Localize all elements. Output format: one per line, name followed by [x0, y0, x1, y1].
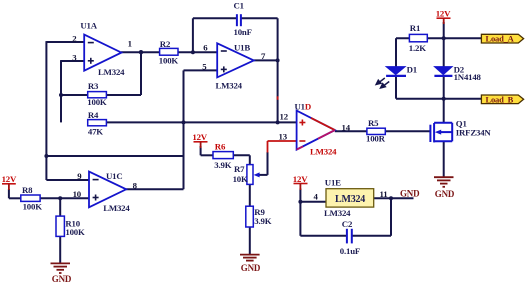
svg-text:R3: R3 — [88, 81, 99, 91]
wire node row y156 — [46, 155, 183, 157]
wire Q1 drain — [443, 99, 445, 123]
svg-text:13: 13 — [279, 132, 288, 142]
svg-text:Load_A: Load_A — [486, 34, 515, 44]
wire R10 to ground — [59, 236, 61, 263]
wire pin9 U1C — [46, 179, 89, 181]
svg-text:12V: 12V — [293, 174, 308, 184]
svg-text:R1: R1 — [410, 23, 420, 33]
svg-text:LM324: LM324 — [335, 194, 365, 205]
wire Q1 source to ground — [443, 141, 445, 177]
ground under R10 — [51, 263, 71, 273]
wire 12V stub to R6 — [200, 146, 202, 155]
wire left vertical column — [45, 41, 47, 180]
diode D1 LED — [376, 64, 417, 88]
op-amp U1A — [72, 21, 132, 77]
svg-text:R6: R6 — [215, 141, 226, 151]
svg-text:R4: R4 — [88, 110, 99, 120]
svg-text:R2: R2 — [160, 39, 171, 49]
wire pin4 U1E — [300, 201, 326, 203]
svg-text:14: 14 — [342, 123, 351, 133]
svg-text:U1E: U1E — [325, 178, 341, 188]
svg-text:R7: R7 — [234, 164, 245, 174]
wire 12V stub U1E — [299, 189, 301, 202]
wire U1C output — [126, 188, 184, 190]
wire pin3 U1A — [61, 60, 84, 62]
svg-text:12V: 12V — [192, 132, 207, 142]
op-amp U1D — [279, 102, 351, 157]
resistor R6 — [213, 141, 233, 170]
transistor Q1 — [430, 123, 452, 143]
wire feedback vertical x141 — [140, 52, 142, 95]
wire 12V vertical top right — [443, 22, 445, 38]
svg-text:U1A: U1A — [80, 21, 97, 31]
wire red mark on vertical — [277, 96, 279, 100]
svg-text:100K: 100K — [65, 227, 85, 237]
svg-text:IRFZ34N: IRFZ34N — [456, 127, 492, 137]
svg-text:1N4148: 1N4148 — [454, 72, 482, 82]
wire R3 right — [106, 94, 141, 96]
op-amp U1E power part — [314, 178, 388, 218]
svg-text:10K: 10K — [233, 174, 248, 184]
ground under Q1 — [434, 177, 454, 187]
svg-text:100K: 100K — [87, 97, 107, 107]
resistor R3 — [87, 81, 107, 107]
svg-text:LM324: LM324 — [310, 147, 337, 157]
ground under R9 — [240, 255, 260, 261]
svg-text:3.9K: 3.9K — [214, 160, 231, 170]
node junction dots — [44, 36, 445, 204]
resistor R2 — [159, 39, 179, 65]
wire R8 to pin10 U1C — [40, 197, 89, 199]
wire R3 left — [61, 94, 88, 96]
wire pin11 to GND port — [374, 197, 414, 199]
wire C1 right vertical — [277, 18, 279, 122]
svg-text:Load_B: Load_B — [486, 94, 514, 104]
svg-text:LM324: LM324 — [324, 208, 351, 218]
svg-text:LM324: LM324 — [216, 81, 243, 91]
svg-text:12V: 12V — [436, 9, 451, 19]
resistor R1 — [409, 23, 428, 53]
svg-text:10: 10 — [73, 189, 82, 199]
svg-text:12V: 12V — [2, 174, 17, 184]
wire 12V stub to R8 — [8, 189, 10, 198]
svg-text:100K: 100K — [23, 201, 43, 211]
wire R9 to ground — [249, 227, 251, 254]
svg-text:C1: C1 — [234, 1, 244, 11]
wire R4 row to pin12 U1D — [106, 121, 296, 123]
svg-text:47K: 47K — [88, 126, 103, 136]
svg-text:12: 12 — [280, 112, 289, 122]
wire into R7 top — [249, 155, 251, 164]
diode D2 — [434, 64, 481, 82]
capacitor C1 — [234, 1, 252, 38]
wire 12V to R6 — [201, 154, 213, 156]
svg-text:R8: R8 — [22, 185, 33, 195]
wire bottom row to Load_B — [396, 98, 481, 100]
wire pin3 vertical — [60, 60, 62, 122]
svg-text:D1: D1 — [407, 64, 417, 74]
svg-text:LM324: LM324 — [103, 203, 130, 213]
wire C2 left vertical — [299, 202, 301, 236]
wire C2 right vertical — [390, 198, 392, 236]
power 12V top right — [436, 9, 451, 25]
wire D2 anode — [443, 38, 445, 67]
power 12V at U1E — [293, 174, 308, 190]
wire C2 left lead — [300, 235, 346, 237]
svg-text:U1C: U1C — [106, 171, 123, 181]
resistor R9 — [246, 206, 272, 227]
wire R2 to pin6 U1B — [178, 51, 217, 53]
svg-text:1.2K: 1.2K — [409, 43, 426, 53]
wire R6 to R7 corner — [233, 154, 250, 156]
wire C1 left vertical — [192, 18, 194, 52]
svg-text:1: 1 — [128, 38, 132, 48]
connector Load_A — [481, 34, 523, 44]
capacitor C2 — [340, 219, 360, 256]
wire D1 cathode — [395, 76, 397, 99]
wire D1 anode — [395, 38, 397, 67]
wire wiper vertical lower — [267, 152, 269, 175]
resistor R5 — [366, 118, 386, 143]
connector Load_B — [481, 94, 523, 104]
wire C1 right lead — [241, 17, 278, 19]
svg-text:100K: 100K — [159, 55, 179, 65]
power 12V at R6 — [192, 132, 207, 148]
wire U1D output to R5 — [335, 130, 367, 132]
svg-text:GND: GND — [52, 274, 72, 284]
svg-text:C2: C2 — [342, 219, 353, 229]
wire U1C out vertical — [183, 70, 185, 189]
wire R5 to Q1 gate — [385, 130, 430, 132]
svg-text:R5: R5 — [368, 118, 379, 128]
svg-text:U1D: U1D — [295, 102, 312, 112]
svg-text:LM324: LM324 — [98, 67, 125, 77]
svg-text:GND: GND — [241, 263, 261, 273]
wire U1B output — [254, 59, 278, 61]
resistor R10 — [56, 216, 85, 237]
wire pin2 U1A — [46, 41, 84, 43]
resistor R8 — [21, 185, 42, 211]
power 12V left — [2, 174, 17, 190]
svg-text:GND: GND — [400, 188, 420, 198]
svg-text:GND: GND — [435, 189, 455, 199]
wire U1A output — [121, 51, 160, 53]
wire D2 cathode — [443, 76, 445, 99]
svg-text:0.1uF: 0.1uF — [340, 246, 360, 256]
wire R7 to R9 — [249, 184, 251, 206]
potentiometer R7 — [233, 164, 260, 185]
wire 12V to R8 — [9, 197, 21, 199]
op-amp U1C — [73, 171, 138, 213]
wire top row to Load_A — [396, 37, 481, 39]
resistor R4 — [88, 110, 107, 137]
svg-text:100R: 100R — [366, 133, 386, 143]
svg-text:11: 11 — [380, 189, 388, 199]
wire R7 wiper — [257, 174, 268, 176]
svg-text:10nF: 10nF — [234, 27, 252, 37]
svg-text:3.9K: 3.9K — [254, 216, 271, 226]
wire C1 left lead — [193, 17, 237, 19]
wire pin13 red net — [268, 141, 297, 153]
wire junction to R10 — [59, 198, 61, 216]
svg-text:U1B: U1B — [234, 42, 250, 52]
wire pin5 U1B — [184, 69, 218, 71]
wire C2 right lead — [352, 235, 391, 237]
op-amp U1B — [202, 42, 266, 90]
